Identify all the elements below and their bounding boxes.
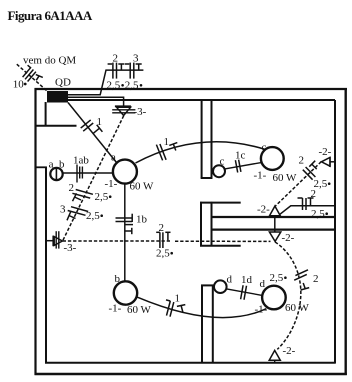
drop triangle -2- above wall: [270, 206, 281, 216]
conduit mark circuit 3 top-center: [125, 63, 142, 79]
svg-text:60 W: 60 W: [285, 302, 310, 314]
wall outer bottom: [35, 373, 347, 375]
wall inner right: [334, 100, 336, 363]
svg-text:1b: 1b: [136, 214, 148, 226]
wire switch ab to lamp a: [63, 172, 113, 174]
svg-text:2,5: 2,5: [156, 248, 170, 260]
svg-text:3: 3: [133, 53, 139, 65]
svg-text:2,5: 2,5: [86, 210, 100, 222]
wire right wall to triangles stem: [276, 206, 335, 217]
lamp d 60W: [262, 286, 286, 310]
wall corridor top fin: [200, 202, 241, 204]
wire QD to lamp a: [68, 103, 117, 163]
svg-text:b: b: [115, 273, 121, 285]
svg-text:-2-: -2-: [319, 146, 332, 158]
curved wire lamp b to lamp d: [137, 297, 266, 317]
svg-text:60 W: 60 W: [127, 304, 152, 316]
circuit line QD to buzzer drop: [68, 97, 124, 106]
drop triangle -2- bottom: [269, 350, 280, 362]
conduit mark 2 on left dashed: [72, 190, 93, 202]
svg-text:-1-: -1-: [255, 304, 268, 316]
label 2,5 mark2: [95, 191, 112, 203]
wall inner left upper below QD: [45, 102, 47, 126]
svg-text:10: 10: [13, 79, 24, 91]
wall inner top: [67, 99, 335, 101]
svg-text:-3-: -3-: [134, 106, 147, 118]
wall inner bottom: [45, 362, 336, 364]
svg-text:2: 2: [313, 273, 319, 285]
wall room-c bottom line1: [212, 216, 336, 218]
feeder dashed wire vem do QM: [17, 64, 48, 92]
wall outer left: [34, 88, 36, 375]
circuit line QD to top-center group: [68, 70, 143, 95]
svg-text:d: d: [260, 278, 266, 290]
svg-text:-1-: -1-: [105, 178, 118, 190]
svg-text:1ab: 1ab: [73, 155, 89, 167]
svg-text:2,5: 2,5: [125, 80, 139, 92]
svg-text:1: 1: [164, 136, 170, 148]
conduit mark 2 on wall wire: [298, 198, 314, 210]
conduit mark circuit 2 top-center: [108, 63, 125, 79]
switch d: [214, 280, 227, 293]
svg-text:2: 2: [69, 182, 75, 194]
label 2,5 horizontal dashed: [156, 248, 173, 260]
svg-text:2: 2: [299, 155, 305, 167]
drop triangle -2- right wall: [321, 157, 335, 167]
svg-text:1: 1: [97, 116, 103, 128]
switch ab: [50, 168, 62, 180]
conduit mark 1 on QD-a wire: [81, 120, 103, 133]
svg-text:60 W: 60 W: [273, 172, 298, 184]
dashed curved wire to bottom triangle: [275, 242, 301, 349]
svg-text:1c: 1c: [235, 150, 246, 162]
conduit mark 1ab: [77, 165, 82, 183]
wall left door cap: [36, 166, 47, 168]
label 2,5 wall wire: [311, 208, 328, 220]
conduit mark 1c: [235, 160, 241, 173]
lamp c 60W: [261, 147, 284, 170]
conduit mark QM T tick: [36, 75, 43, 81]
conduit mark QM 3 slashes: [23, 65, 36, 81]
wall corridor center vertical: [201, 202, 212, 247]
svg-text:60 W: 60 W: [130, 181, 155, 193]
conduit mark 1d: [241, 285, 247, 300]
switch c: [213, 165, 225, 177]
svg-text:d: d: [227, 274, 233, 286]
label 2,5 mark3: [86, 210, 103, 222]
svg-text:-3-: -3-: [64, 242, 77, 254]
conduit mark 2 on diagonal dashed: [303, 161, 317, 180]
conduit mark 1 on arc: [156, 143, 177, 161]
wall corridor bottom fin: [200, 245, 241, 247]
wall interior bottom-right room left side: [201, 285, 214, 363]
buzzer symbol -3- top: [112, 106, 135, 115]
wall inner left lower: [45, 167, 47, 364]
wall shelf line below QD: [36, 125, 77, 127]
label 10 dot: [13, 79, 27, 91]
svg-text:2: 2: [113, 53, 119, 65]
svg-text:2,5: 2,5: [311, 208, 325, 220]
label 2,5 curved dashed: [270, 272, 287, 284]
drop triangle -2- below wall: [269, 232, 280, 241]
conduit mark 2 on horizontal dashed: [156, 232, 170, 248]
dashed wire right triangle to up triangle: [275, 162, 321, 206]
svg-text:vem do QM: vem do QM: [23, 55, 76, 67]
svg-text:1d: 1d: [241, 274, 253, 286]
svg-text:2: 2: [311, 188, 317, 200]
dashed wire top buzzer to left buzzer: [63, 116, 124, 241]
conduit mark 1b: [116, 214, 134, 235]
svg-text:c: c: [220, 156, 225, 168]
wall outer right: [345, 88, 347, 375]
wall outer top: [35, 88, 348, 90]
svg-text:Figura 6A1AAA: Figura 6A1AAA: [8, 8, 93, 23]
wire switch c to lamp c: [225, 162, 262, 169]
svg-text:2: 2: [159, 222, 165, 234]
label 2,5 diagonal dashed: [314, 178, 331, 190]
svg-text:2,5: 2,5: [107, 80, 121, 92]
svg-text:-2-: -2-: [283, 345, 296, 357]
svg-text:2,5: 2,5: [270, 272, 284, 284]
wall room-d top line2: [212, 228, 336, 230]
svg-text:QD: QD: [55, 77, 71, 89]
dashed wire horizontal left buzzer to down triangle: [63, 240, 271, 242]
wire lamp a to lamp b: [124, 184, 126, 282]
long wire lamp a over to lamp c (arc): [136, 142, 266, 163]
label 2,5 2,5 top-center: [107, 80, 143, 92]
conduit mark 1 on b-d curve: [166, 300, 185, 317]
lamp b 60W: [114, 281, 137, 304]
svg-text:2,5: 2,5: [95, 191, 109, 203]
lamp a 60W: [113, 160, 137, 184]
svg-text:c: c: [262, 142, 267, 154]
stem between triangles: [274, 216, 276, 232]
distribution board QD: [47, 91, 68, 103]
conduit mark 2 on curved dashed: [294, 270, 309, 290]
svg-text:a: a: [49, 159, 54, 171]
buzzer symbol -3- left wall: [47, 231, 63, 248]
svg-text:3: 3: [60, 204, 66, 216]
svg-text:-2-: -2-: [257, 204, 270, 216]
svg-text:a: a: [111, 152, 116, 164]
svg-text:1: 1: [175, 293, 181, 305]
svg-text:-1-: -1-: [254, 170, 267, 182]
conduit mark 3 on left dashed: [67, 207, 88, 221]
svg-text:-1-: -1-: [109, 303, 122, 315]
wire switch d to lamp d: [227, 289, 263, 296]
wall interior top-right room left side: [201, 100, 213, 179]
svg-text:b: b: [59, 159, 65, 171]
svg-text:-2-: -2-: [282, 232, 295, 244]
